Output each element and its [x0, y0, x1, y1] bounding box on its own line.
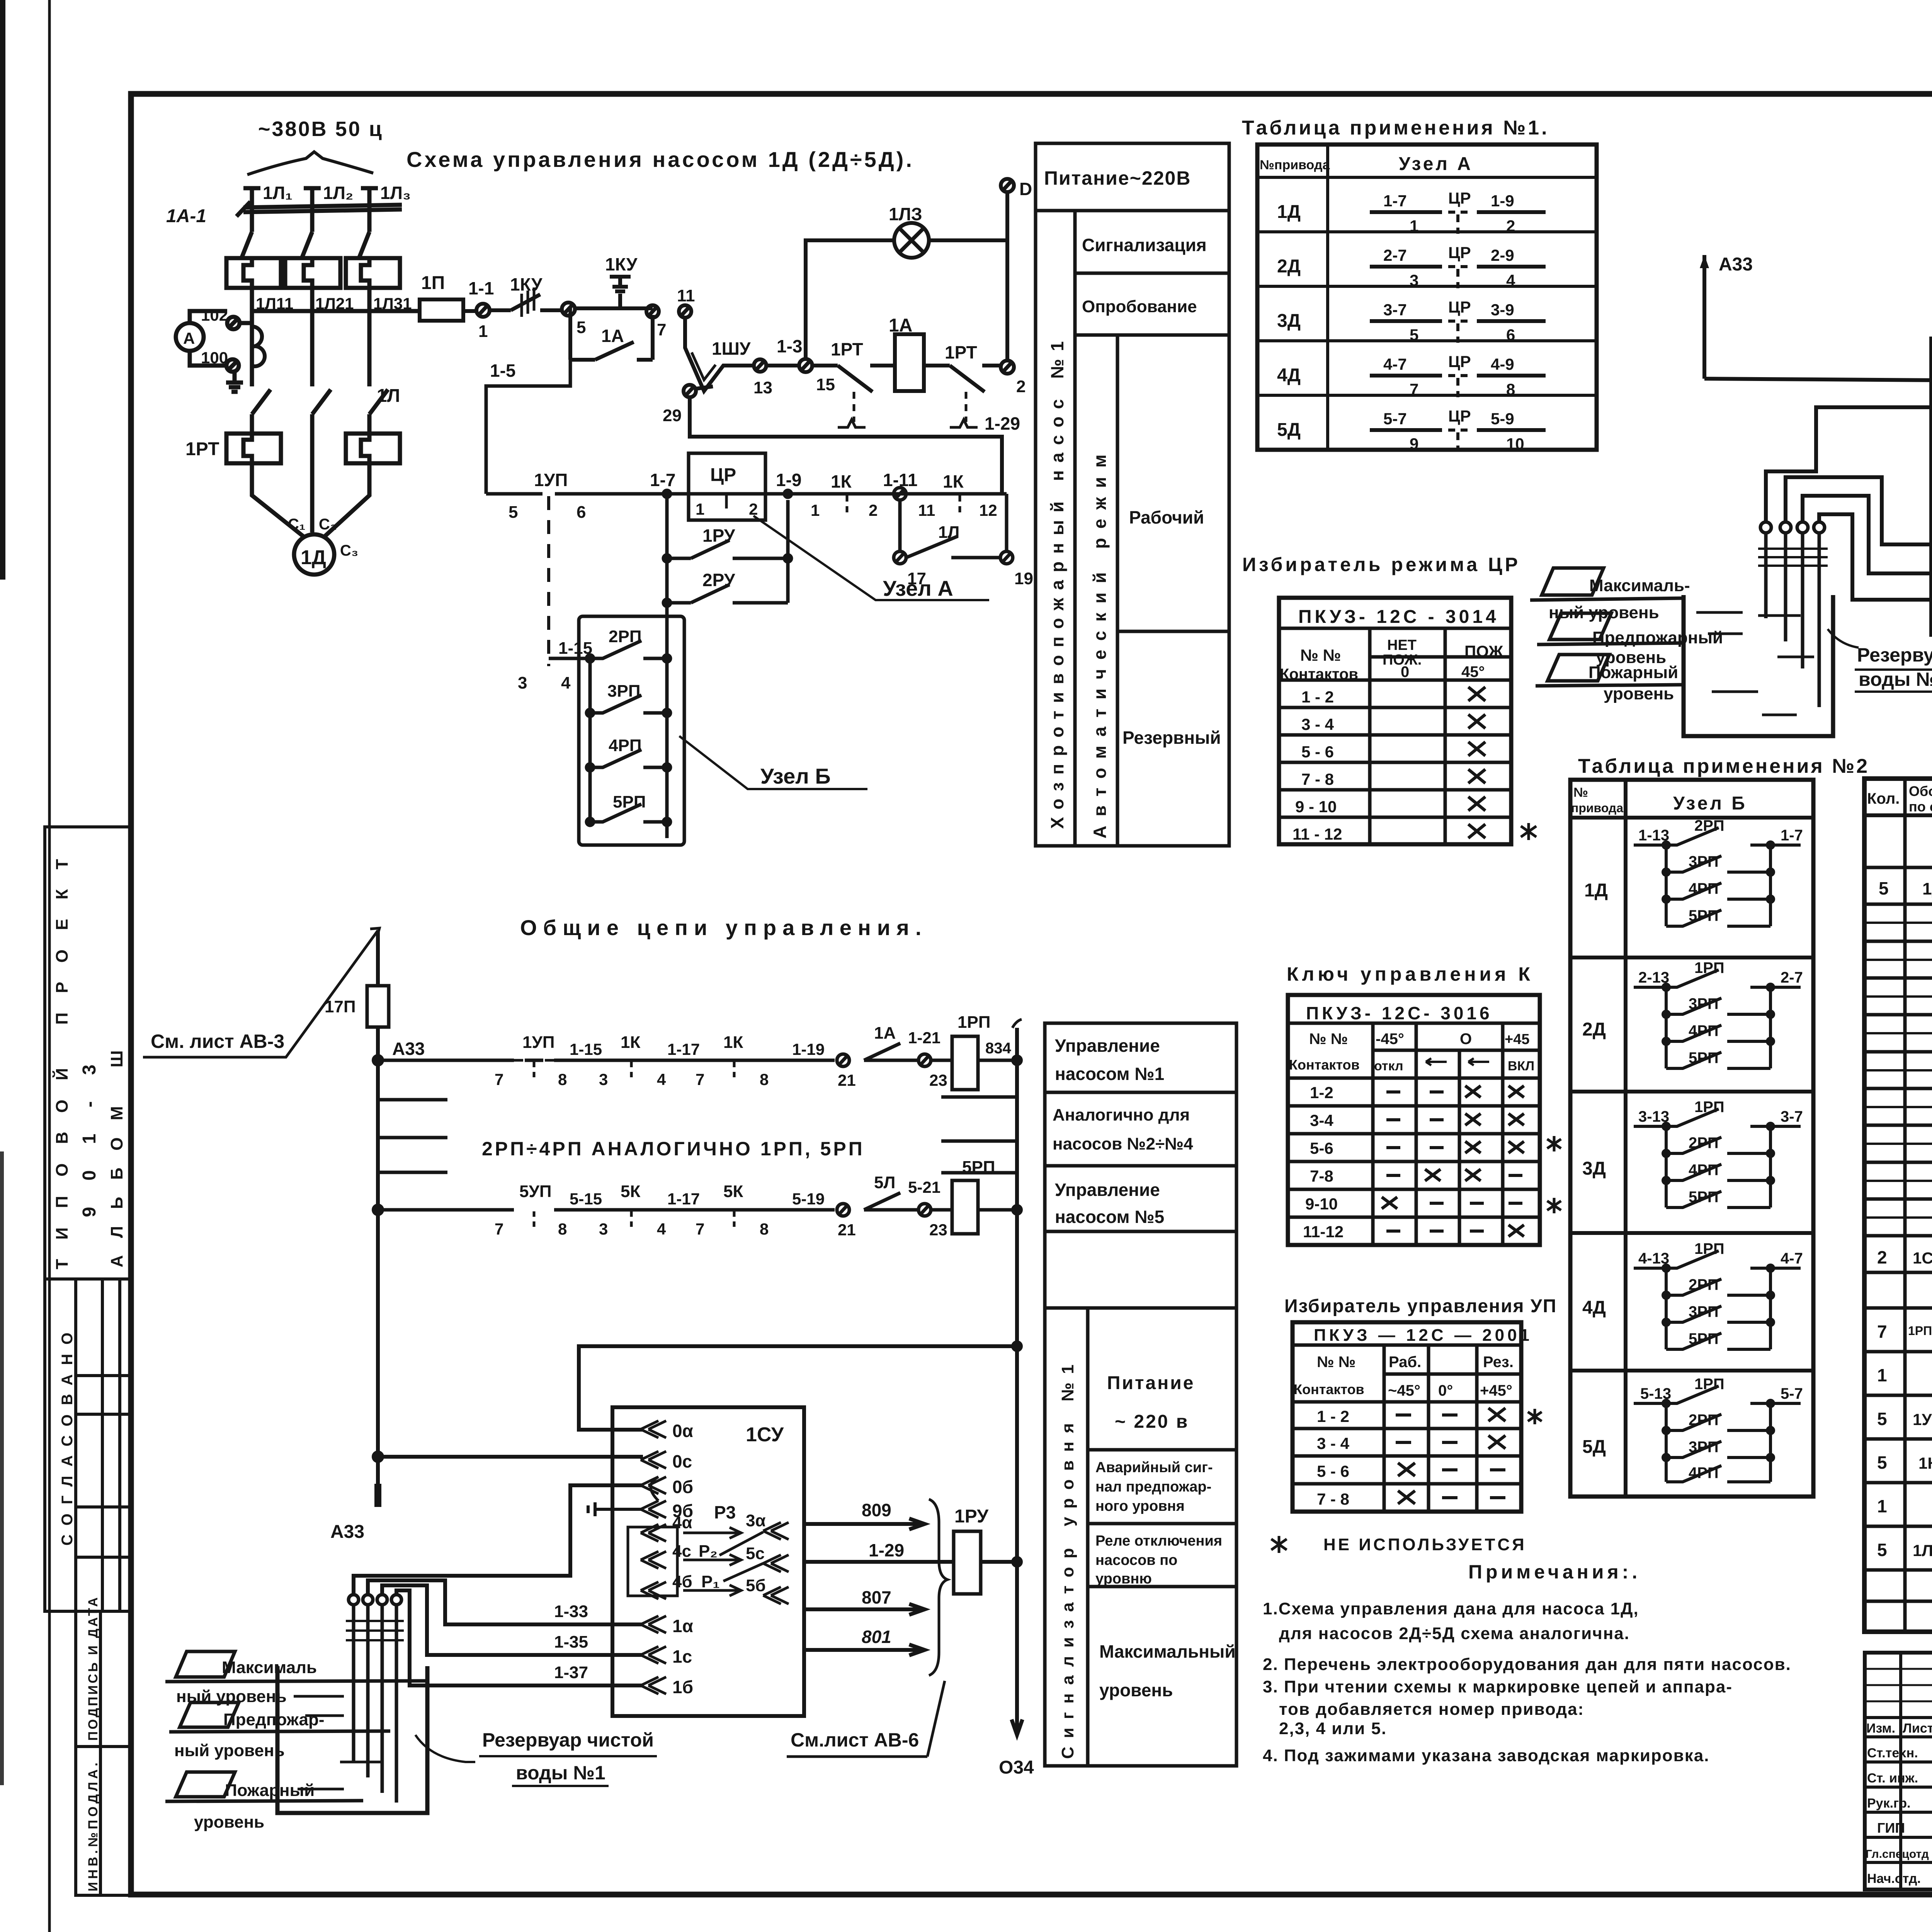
svg-text:3РП: 3РП: [607, 682, 640, 701]
svg-text:2-7: 2-7: [1383, 246, 1407, 264]
svg-text:807: 807: [862, 1587, 891, 1607]
svg-text:21: 21: [838, 1221, 856, 1239]
svg-text:Избиратель режима ЦР: Избиратель режима ЦР: [1242, 554, 1520, 575]
output 5b: [746, 1576, 789, 1604]
svg-text:Сигнализация: Сигнализация: [1082, 235, 1207, 255]
svg-text:3-7: 3-7: [1781, 1108, 1803, 1125]
svg-text:4РП: 4РП: [1689, 880, 1719, 897]
row 2D diagram: [1582, 959, 1803, 1068]
svg-text:Узел А: Узел А: [1399, 154, 1473, 174]
input 1c: [641, 1646, 692, 1667]
contact 5RP: [587, 793, 670, 825]
svg-text:7: 7: [495, 1220, 503, 1238]
svg-text:5РП: 5РП: [1689, 1049, 1719, 1066]
contact 1A on phases: [252, 386, 400, 456]
svg-text:12: 12: [979, 501, 997, 519]
input 4c: [641, 1542, 741, 1568]
svg-text:19: 19: [1014, 569, 1033, 588]
svg-text:2: 2: [749, 500, 758, 518]
svg-text:23: 23: [929, 1221, 947, 1239]
svg-text:3 - 4: 3 - 4: [1317, 1434, 1350, 1452]
terminal 15 / 1-3: [777, 336, 835, 394]
svg-text:2-7: 2-7: [1781, 969, 1803, 986]
svg-text:5: 5: [1877, 1452, 1887, 1473]
svg-text:1-7: 1-7: [1781, 827, 1803, 844]
svg-text:5-21: 5-21: [908, 1178, 940, 1196]
svg-text:10: 10: [1506, 435, 1524, 453]
svg-text:Ключ управления К: Ключ управления К: [1287, 963, 1534, 985]
svg-text:1Л: 1Л: [377, 386, 400, 406]
row rele: [1088, 1585, 1236, 1588]
svg-text:0α: 0α: [672, 1421, 693, 1441]
terminal 5: [562, 303, 586, 337]
callout see sheet AV-3: [143, 928, 379, 1057]
ground: [226, 372, 243, 392]
svg-text:воды №1: воды №1: [516, 1762, 605, 1784]
svg-text:4: 4: [561, 673, 571, 692]
svg-text:1РП: 1РП: [1694, 959, 1725, 976]
svg-text:С₁: С₁: [288, 516, 305, 533]
svg-text:1ЛЗ: 1ЛЗ: [889, 204, 922, 224]
svg-text:2: 2: [869, 501, 878, 519]
svg-text:Общие цепи управления.: Общие цепи управления.: [520, 915, 927, 940]
phase verticals below contactor: [250, 288, 254, 386]
svg-text:17П: 17П: [325, 997, 356, 1016]
svg-text:Максималь-: Максималь-: [1589, 576, 1690, 595]
svg-text:13: 13: [753, 378, 772, 397]
terminal D: [1001, 179, 1032, 199]
footnote ne ispolzuetsya: [1271, 1535, 1527, 1554]
lamp branch wire: [806, 240, 894, 359]
row upravlenie nasosom 1: [1045, 1091, 1236, 1094]
svg-text:~ 220 в: ~ 220 в: [1115, 1412, 1189, 1432]
svg-text:О: О: [1460, 1031, 1472, 1048]
svg-text:11-12: 11-12: [1303, 1223, 1344, 1241]
svg-text:Аналогично для: Аналогично для: [1053, 1105, 1190, 1124]
svg-text:5 - 6: 5 - 6: [1317, 1462, 1349, 1480]
svg-text:9-10: 9-10: [1305, 1195, 1338, 1213]
wire 801: [804, 1627, 925, 1655]
terminal 100: [201, 349, 239, 372]
svg-text:уровень: уровень: [1604, 684, 1674, 703]
input 1b: [641, 1677, 693, 1697]
col line 1: [1073, 211, 1077, 846]
svg-text:Пожарный: Пожарный: [1588, 663, 1678, 682]
input 0b: [641, 1477, 693, 1497]
svg-text:2РП÷4РП АНАЛОГИЧНО 1РП, 5РП: 2РП÷4РП АНАЛОГИЧНО 1РП, 5РП: [482, 1138, 865, 1160]
svg-text:5Л: 5Л: [874, 1173, 895, 1192]
level symbol max: [165, 1651, 427, 1706]
wire 1-29: [804, 1540, 954, 1562]
svg-text:3: 3: [599, 1070, 608, 1088]
input 0a: [641, 1421, 693, 1441]
row analogichno: [1045, 1164, 1236, 1168]
svg-text:1К: 1К: [621, 1033, 640, 1052]
svg-text:2РП: 2РП: [1694, 817, 1725, 834]
svg-text:0: 0: [1401, 663, 1409, 680]
svg-text:ГИП: ГИП: [1877, 1820, 1905, 1836]
svg-text:Ст. инж.: Ст. инж.: [1867, 1771, 1918, 1786]
svg-text:1: 1: [1877, 1496, 1887, 1516]
net A33 arrow: [1700, 254, 1753, 379]
svg-text:Рабочий: Рабочий: [1129, 507, 1204, 527]
contact 1RU: [663, 494, 791, 562]
wire 0b staircase to tank2: [1766, 407, 1932, 522]
row 5D diagram: [1582, 1376, 1803, 1482]
svg-text:нал предпожар-: нал предпожар-: [1095, 1479, 1211, 1495]
svg-text:1-2: 1-2: [1310, 1083, 1333, 1102]
key K frame: [1288, 995, 1540, 1245]
terminal 2: [1001, 361, 1026, 396]
row predohranitel 17p: [1877, 1360, 1932, 1392]
sidebar box: inv no podl: [76, 1747, 131, 1895]
svg-text:2-9: 2-9: [1491, 246, 1514, 264]
scan edge streak left: [0, 0, 5, 580]
motor 1D: [288, 516, 358, 575]
svg-text:5с: 5с: [746, 1544, 765, 1563]
switch 1UP: [495, 1033, 567, 1088]
svg-text:0°: 0°: [1438, 1382, 1453, 1399]
svg-text:АЛЬБОМ Ш: АЛЬБОМ Ш: [107, 1033, 126, 1267]
table1 row 5Д: [1277, 407, 1546, 453]
svg-text:8: 8: [760, 1070, 769, 1088]
wire 1-15: [518, 639, 592, 692]
relay coil 1RP: [952, 1013, 1017, 1090]
svg-text:4РП: 4РП: [609, 736, 641, 755]
svg-text:1А: 1А: [601, 326, 624, 346]
wire 1-5: [486, 307, 570, 494]
table no1 frame: [1257, 145, 1597, 450]
svg-text:ПКУЗ — 12С — 2001: ПКУЗ — 12С — 2001: [1314, 1326, 1532, 1345]
relay coil 5RP: [952, 1158, 1017, 1234]
svg-text:1СУ, 2СУ: 1СУ, 2СУ: [1913, 1249, 1932, 1267]
svg-text:2Д: 2Д: [1277, 256, 1301, 277]
svg-text:1б: 1б: [672, 1677, 693, 1697]
svg-text:1РП: 1РП: [957, 1013, 990, 1032]
contact 1K second: [723, 1033, 769, 1088]
svg-text:5Д: 5Д: [1582, 1437, 1606, 1457]
brace: [929, 1499, 947, 1675]
contact 1A: [864, 1024, 900, 1060]
wire 1-37: [396, 1590, 643, 1685]
row 3D diagram: [1582, 1099, 1803, 1207]
svg-text:Управление: Управление: [1055, 1180, 1160, 1200]
svg-text:Узел А: Узел А: [883, 576, 953, 600]
tank 2 label callout: [1828, 629, 1932, 692]
terminal 102: [201, 306, 240, 329]
level symbol predpozh: [1537, 613, 1723, 667]
button 1KU NO above: [605, 254, 638, 308]
svg-text:1Д: 1Д: [1584, 880, 1608, 901]
svg-text:Сигнализатор уровня №1: Сигнализатор уровня №1: [1058, 1356, 1077, 1759]
svg-text:Кол.: Кол.: [1867, 790, 1900, 807]
svg-text:5Д: 5Д: [1277, 420, 1301, 440]
svg-text:ПКУЗ- 12С- 3016: ПКУЗ- 12С- 3016: [1306, 1003, 1493, 1023]
svg-text:1 - 2: 1 - 2: [1301, 688, 1334, 706]
wire 0c: [1704, 379, 1932, 381]
svg-text:1РТ: 1РТ: [945, 342, 977, 362]
level symbol pozh: [1536, 655, 1685, 703]
svg-text:№: №: [1573, 785, 1588, 800]
svg-text:Р₂: Р₂: [699, 1542, 718, 1561]
input 4b: [641, 1572, 741, 1599]
tank 2 water dashes: [1696, 612, 1814, 715]
svg-text:6: 6: [577, 503, 586, 522]
phase lead 1L1: [243, 183, 293, 232]
svg-text:1РТ: 1РТ: [831, 339, 863, 359]
svg-text:ЦР: ЦР: [710, 465, 736, 485]
svg-text:2: 2: [1016, 377, 1026, 396]
svg-text:5: 5: [1879, 878, 1889, 898]
svg-text:уровень: уровень: [194, 1813, 264, 1832]
level symbol max: [1530, 568, 1690, 622]
wire 1-35: [382, 1585, 643, 1655]
svg-text:Рук.гр.: Рук.гр.: [1867, 1796, 1910, 1811]
svg-text:2,3, 4 или 5.: 2,3, 4 или 5.: [1279, 1719, 1387, 1738]
svg-text:3-4: 3-4: [1310, 1111, 1333, 1129]
svg-text:1-19: 1-19: [792, 1040, 825, 1058]
svg-text:Максимальный: Максимальный: [1099, 1641, 1236, 1662]
svg-text:Предпожарный: Предпожарный: [1592, 628, 1723, 647]
svg-text:Раб.: Раб.: [1389, 1354, 1421, 1371]
svg-text:1ШУ: 1ШУ: [712, 338, 751, 359]
signature table frame: [1865, 1653, 1932, 1889]
svg-text:1Л₁: 1Л₁: [263, 183, 293, 203]
svg-text:1-9: 1-9: [1491, 192, 1514, 210]
svg-text:Предпожар-: Предпожар-: [223, 1710, 325, 1729]
svg-text:5: 5: [577, 318, 586, 337]
contactor pole 1L31: [346, 258, 412, 313]
thermal relay 1RT pole 1: [226, 434, 281, 463]
svg-text:НЕТ: НЕТ: [1387, 637, 1417, 653]
svg-text:Резервуар чистой: Резервуар чистой: [1857, 644, 1932, 666]
svg-text:7 - 8: 7 - 8: [1317, 1490, 1349, 1508]
svg-text:4РП: 4РП: [1689, 1162, 1719, 1179]
svg-text:4РП: 4РП: [1689, 1464, 1719, 1481]
svg-text:7 - 8: 7 - 8: [1301, 770, 1334, 788]
panel 2 box: [1045, 1023, 1236, 1766]
svg-text:2. Перечень электрооборудовани: 2. Перечень электрооборудования дан для …: [1263, 1655, 1791, 1674]
svg-text:№ №: № №: [1300, 646, 1341, 664]
svg-text:Узел Б: Узел Б: [1673, 793, 1747, 814]
svg-text:1: 1: [478, 322, 488, 341]
svg-text:Гл.спецотд: Гл.спецотд: [1866, 1848, 1929, 1861]
svg-text:1α: 1α: [672, 1616, 693, 1636]
svg-text:7-8: 7-8: [1310, 1167, 1333, 1185]
svg-text:Управление: Управление: [1055, 1036, 1160, 1056]
outer sheet line left: [48, 0, 51, 1932]
section signalizator: [1045, 1306, 1236, 1310]
equipment table frame: [1864, 779, 1932, 1632]
svg-text:ЦР: ЦР: [1448, 298, 1471, 316]
left stubs: [378, 1100, 447, 1172]
svg-text:ВКЛ: ВКЛ: [1508, 1059, 1534, 1073]
svg-text:1-21: 1-21: [908, 1029, 940, 1047]
terminal 1-1: [468, 278, 494, 341]
svg-text:Питание: Питание: [1107, 1373, 1195, 1393]
ammeter 1A: [176, 323, 204, 351]
node B outline box: [579, 616, 684, 845]
relay coil 1RU: [954, 1506, 1017, 1594]
svg-text:ЦР: ЦР: [1448, 407, 1471, 425]
svg-text:1-3: 1-3: [777, 336, 802, 356]
svg-text:№ №: № №: [1309, 1031, 1348, 1048]
key K marks: [1386, 1086, 1524, 1097]
svg-text:Таблица применения №1.: Таблица применения №1.: [1242, 117, 1549, 139]
svg-text:1: 1: [1410, 217, 1418, 235]
svg-text:ный уровень: ный уровень: [174, 1741, 285, 1760]
svg-text:1Д: 1Д: [1277, 202, 1301, 222]
net A33 riser: [376, 930, 380, 986]
input 4a: [641, 1513, 741, 1541]
svg-text:45°: 45°: [1461, 663, 1485, 680]
svg-text:1Л: 1Л: [938, 523, 959, 542]
row dvigatel: [1879, 873, 1932, 903]
svg-text:100: 100: [201, 349, 228, 367]
svg-text:См. лист АВ-3: См. лист АВ-3: [151, 1031, 284, 1052]
sidebar box: podpis data: [76, 1611, 131, 1747]
svg-text:5РП: 5РП: [962, 1158, 995, 1177]
bus wire: [378, 1059, 952, 1062]
svg-text:1КУ: 1КУ: [605, 254, 638, 274]
wire upper path: [575, 306, 653, 310]
svg-text:насосом №5: насосом №5: [1055, 1207, 1164, 1227]
terminal 21: [837, 1054, 856, 1089]
motor leads: [252, 463, 305, 538]
coil 1A: [889, 315, 924, 391]
row rele: [1877, 1316, 1932, 1349]
svg-text:-45°: -45°: [1376, 1031, 1404, 1048]
svg-text:5 - 6: 5 - 6: [1301, 743, 1334, 761]
merged row u mehanizma: [1864, 866, 1932, 869]
svg-text:21: 21: [838, 1071, 856, 1089]
terminal 11: [677, 286, 695, 318]
svg-text:1.Схема управления дана для на: 1.Схема управления дана для насоса 1Д,: [1263, 1599, 1639, 1618]
svg-text:5-9: 5-9: [1491, 410, 1514, 428]
analog rows stubs: [378, 1097, 1017, 1173]
svg-text:1с: 1с: [672, 1646, 692, 1667]
svg-text:1-37: 1-37: [554, 1663, 588, 1682]
svg-text:1К: 1К: [723, 1033, 743, 1052]
svg-text:Ст.техн.: Ст.техн.: [1867, 1746, 1918, 1760]
svg-text:901-3: 901-3: [79, 1038, 100, 1217]
svg-text:102: 102: [201, 306, 228, 324]
row regulyator: [1877, 1247, 1932, 1267]
terminal 29: [663, 385, 713, 425]
svg-text:9: 9: [1410, 435, 1418, 453]
svg-text:Резервный: Резервный: [1122, 728, 1221, 748]
svg-text:~380В 50 ц: ~380В 50 ц: [258, 117, 383, 141]
svg-text:СОГЛАСОВАНО: СОГЛАСОВАНО: [59, 1323, 76, 1546]
breaker 1A-1: [166, 202, 402, 258]
fuse 1P: [420, 273, 476, 321]
supply bracket: [247, 152, 373, 175]
svg-text:1-29: 1-29: [869, 1540, 904, 1560]
row oprobovanie: [1075, 333, 1229, 337]
svg-text:1ЛЗ÷5ЛЗ: 1ЛЗ÷5ЛЗ: [1913, 1541, 1932, 1560]
svg-text:1УП: 1УП: [522, 1033, 554, 1052]
svg-text:801: 801: [862, 1627, 891, 1647]
svg-text:3РП: 3РП: [1689, 853, 1719, 870]
svg-text:9 - 10: 9 - 10: [1295, 798, 1337, 816]
svg-text:1-7: 1-7: [1383, 192, 1407, 210]
svg-text:1-33: 1-33: [554, 1602, 588, 1621]
svg-text:1-9: 1-9: [776, 470, 801, 490]
right stubs: [941, 1097, 1017, 1173]
svg-text:D: D: [1019, 179, 1032, 199]
svg-text:насосов по: насосов по: [1095, 1552, 1177, 1568]
svg-text:3Д: 3Д: [1277, 311, 1301, 331]
svg-text:+45: +45: [1505, 1031, 1529, 1048]
svg-text:5-6: 5-6: [1310, 1139, 1333, 1157]
svg-text:1СУ: 1СУ: [746, 1423, 784, 1446]
svg-text:1РП: 1РП: [1694, 1240, 1725, 1257]
svg-text:1РП÷5РП,1РУ,2РУ: 1РП÷5РП,1РУ,2РУ: [1908, 1324, 1932, 1338]
svg-text:Р₁: Р₁: [701, 1572, 720, 1591]
svg-text:3РП: 3РП: [1689, 995, 1719, 1012]
lamp 1LZ: [889, 204, 929, 258]
svg-text:0с: 0с: [672, 1451, 692, 1471]
svg-text:1Л₃: 1Л₃: [380, 183, 411, 203]
svg-text:1П: 1П: [421, 273, 445, 293]
svg-text:1-7: 1-7: [650, 470, 675, 490]
svg-text:А33: А33: [1719, 254, 1753, 275]
svg-text:ИНВ.№ПОДЛА.: ИНВ.№ПОДЛА.: [86, 1760, 100, 1891]
svg-text:См.лист АВ-6: См.лист АВ-6: [791, 1729, 919, 1751]
output 5c: [723, 1544, 789, 1581]
svg-text:1-17: 1-17: [667, 1190, 700, 1208]
svg-text:4: 4: [1506, 271, 1515, 289]
mid lines left cols: [1864, 923, 1932, 1218]
svg-text:1-11: 1-11: [883, 470, 918, 490]
svg-text:Нач.отд.: Нач.отд.: [1867, 1871, 1921, 1886]
svg-text:15: 15: [816, 375, 835, 394]
svg-text:1К: 1К: [943, 471, 964, 492]
wire 807: [804, 1587, 925, 1615]
svg-text:6: 6: [1506, 326, 1515, 344]
svg-text:3-9: 3-9: [1491, 301, 1514, 319]
svg-text:8: 8: [558, 1070, 567, 1088]
UP marks: [1396, 1408, 1505, 1421]
svg-text:насосов №2÷№4: насосов №2÷№4: [1053, 1134, 1193, 1153]
svg-text:Контактов: Контактов: [1294, 1381, 1364, 1397]
TsR crosses: [1468, 687, 1485, 701]
svg-text:7: 7: [495, 1070, 503, 1088]
svg-text:Контактов: Контактов: [1289, 1057, 1360, 1073]
sidebar box: project stamp: [45, 827, 131, 1279]
table no2 frame: [1570, 780, 1813, 1497]
svg-text:4: 4: [657, 1070, 666, 1088]
wire 1-33: [368, 1580, 643, 1624]
button 1KU NC: [510, 274, 562, 317]
svg-text:5б: 5б: [746, 1576, 766, 1595]
svg-text:Избиратель управления УП: Избиратель управления УП: [1284, 1296, 1557, 1316]
svg-text:5-7: 5-7: [1781, 1385, 1803, 1402]
cell rabochiy: [1117, 630, 1229, 633]
legend panel box: [1036, 143, 1229, 846]
svg-text:1А-1: 1А-1: [166, 206, 206, 226]
svg-text:Реле отключения: Реле отключения: [1095, 1533, 1222, 1549]
svg-text:НЕ ИСПОЛЬЗУЕТСЯ: НЕ ИСПОЛЬЗУЕТСЯ: [1323, 1535, 1527, 1554]
contact 3RP: [587, 682, 670, 716]
svg-text:4-7: 4-7: [1383, 355, 1407, 373]
terminal 13: [753, 359, 772, 397]
svg-text:3-7: 3-7: [1383, 301, 1407, 319]
row avariynyi: [1088, 1522, 1236, 1526]
svg-text:Изм.: Изм.: [1866, 1721, 1895, 1736]
svg-text:4-9: 4-9: [1491, 355, 1514, 373]
tank 1 label callout: [415, 1729, 657, 1786]
